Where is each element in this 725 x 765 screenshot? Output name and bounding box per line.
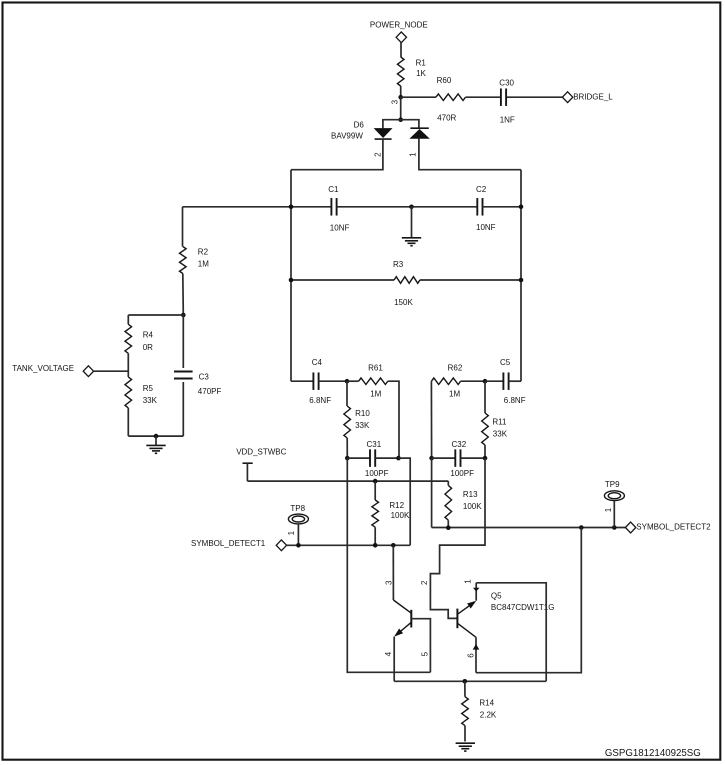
resistor R2 xyxy=(180,247,210,274)
svg-text:6.8NF: 6.8NF xyxy=(504,396,526,405)
label D6 BAV99W xyxy=(331,120,364,140)
svg-text:R4: R4 xyxy=(143,331,154,340)
wire C1 to ground node xyxy=(337,206,412,208)
node right rail / C2 row xyxy=(519,205,524,210)
svg-text:6: 6 xyxy=(466,653,475,658)
wire C31 row corner down xyxy=(399,458,411,545)
wire ground stem left xyxy=(155,436,157,445)
capacitor C1 xyxy=(328,185,349,233)
svg-text:10NF: 10NF xyxy=(476,223,496,232)
capacitor C5 xyxy=(500,358,526,405)
resistor R61 xyxy=(359,364,388,399)
svg-text:BC847CDW1T1G: BC847CDW1T1G xyxy=(491,603,555,612)
wire node to D6 common xyxy=(400,97,402,120)
wire left rail corner to C4 xyxy=(291,380,313,382)
svg-text:3: 3 xyxy=(385,580,394,585)
svg-text:POWER_NODE: POWER_NODE xyxy=(370,20,428,29)
wire left rail to R3 xyxy=(291,279,394,281)
wire POWER_NODE to R1 xyxy=(400,43,402,57)
wire D6 pin1 to bus xyxy=(408,138,521,169)
wire C32 to node xyxy=(461,457,486,459)
svg-text:1M: 1M xyxy=(198,260,209,269)
node right rail / R3 row xyxy=(519,278,524,283)
svg-text:R10: R10 xyxy=(355,409,370,418)
svg-text:1M: 1M xyxy=(449,390,460,399)
wire left rail xyxy=(290,170,292,382)
svg-text:TP9: TP9 xyxy=(605,480,620,489)
svg-text:D6: D6 xyxy=(354,120,365,129)
svg-text:VDD_STWBC: VDD_STWBC xyxy=(236,448,286,457)
ground under R5/C3 xyxy=(146,445,165,453)
diode D6b (cathode up) xyxy=(410,128,428,138)
wire node to R61 xyxy=(347,380,359,382)
wire ground stem xyxy=(411,207,413,238)
svg-text:470R: 470R xyxy=(437,113,456,122)
wire Q5a base rail to C31 left xyxy=(347,458,430,672)
resistor R4 xyxy=(125,324,153,353)
svg-text:2: 2 xyxy=(420,580,429,585)
svg-text:100PF: 100PF xyxy=(365,469,389,478)
wire C1 row to R2 xyxy=(182,207,184,247)
svg-text:1: 1 xyxy=(464,579,473,584)
node Q5a collector junction xyxy=(391,543,396,548)
test point TP9 xyxy=(604,480,624,528)
wire node to C5 xyxy=(485,380,503,382)
svg-text:R14: R14 xyxy=(479,698,494,707)
svg-text:SYMBOL_DETECT1: SYMBOL_DETECT1 xyxy=(191,539,266,548)
wire VDD rail xyxy=(247,480,448,482)
wire R3 to right rail xyxy=(420,279,521,281)
wire TANK_VOLTAGE to divider xyxy=(94,370,129,372)
svg-text:3: 3 xyxy=(390,99,399,104)
wire R4 lead xyxy=(127,315,129,324)
svg-text:R5: R5 xyxy=(143,384,154,393)
node C31 left junction xyxy=(345,456,350,461)
resistor R62 xyxy=(431,364,462,399)
svg-text:R1: R1 xyxy=(416,59,427,68)
svg-text:100K: 100K xyxy=(391,511,410,520)
svg-text:R12: R12 xyxy=(389,501,404,510)
svg-text:C1: C1 xyxy=(328,185,339,194)
node C1/C2 ground junction xyxy=(409,205,414,210)
wire divider bottom xyxy=(128,435,183,437)
capacitor C32 xyxy=(450,440,474,478)
svg-text:33K: 33K xyxy=(143,396,158,405)
wire C32 left down to SD2 xyxy=(431,458,433,527)
svg-text:C32: C32 xyxy=(452,440,467,449)
capacitor C3 xyxy=(174,315,221,436)
node R13 bottom junction xyxy=(446,525,451,530)
svg-text:1K: 1K xyxy=(416,69,426,78)
svg-text:C31: C31 xyxy=(367,440,382,449)
capacitor C30 xyxy=(499,78,515,124)
wire Q5a emitter pin4 xyxy=(384,637,394,682)
wire C30 to BRIDGE_L xyxy=(507,96,563,98)
node divider ground junction xyxy=(154,434,159,439)
wire node to C32 xyxy=(432,457,456,459)
svg-text:BAV99W: BAV99W xyxy=(331,131,363,140)
svg-text:Q5: Q5 xyxy=(491,592,502,601)
wire Q5b collector pin6 xyxy=(466,637,479,672)
wire C31 to node xyxy=(375,457,398,459)
svg-text:C5: C5 xyxy=(500,358,511,367)
svg-text:TP8: TP8 xyxy=(290,504,305,513)
node C31 right junction xyxy=(396,456,401,461)
svg-text:BRIDGE_L: BRIDGE_L xyxy=(573,93,613,102)
capacitor C31 xyxy=(365,440,389,478)
wire R62 to node xyxy=(461,380,485,382)
ground under R14 xyxy=(456,743,475,751)
wire SYMBOL_DETECT1 rail xyxy=(287,544,411,546)
svg-text:R2: R2 xyxy=(198,248,209,257)
wire node to C31 xyxy=(347,457,370,459)
node C4/R61/R10 junction xyxy=(345,379,350,384)
svg-text:5: 5 xyxy=(421,651,430,656)
node R12 bottom junction xyxy=(373,543,378,548)
svg-text:R11: R11 xyxy=(492,418,507,427)
svg-text:C4: C4 xyxy=(312,358,323,367)
svg-text:470PF: 470PF xyxy=(198,387,222,396)
wire R2 to node xyxy=(182,274,185,316)
wire Q5b collector to SD2 xyxy=(476,528,581,673)
svg-text:1M: 1M xyxy=(370,390,381,399)
wire R62 corner down xyxy=(430,381,432,458)
wire Q5a collector xyxy=(385,545,394,600)
node Q5b collector net junction xyxy=(579,525,584,530)
svg-text:1: 1 xyxy=(408,152,417,157)
resistor R12 xyxy=(372,481,410,545)
resistor R5 xyxy=(125,377,158,408)
wire node to C2 xyxy=(412,206,478,208)
resistor R11 xyxy=(482,381,508,458)
node R14 junction xyxy=(463,679,468,684)
wire R2 corner to C1 xyxy=(183,206,332,208)
svg-text:2.2K: 2.2K xyxy=(480,710,497,719)
svg-text:10NF: 10NF xyxy=(330,224,350,233)
node left rail / C1 row xyxy=(289,205,294,210)
net label TANK_VOLTAGE xyxy=(12,364,93,376)
wire Q5b base path from C32 right xyxy=(420,458,485,618)
transistor Q5b (right NPN) xyxy=(457,601,476,638)
label Q5 BC847CDW1T1G xyxy=(491,592,555,612)
wire R5 to bottom xyxy=(127,408,129,436)
wire R1 to node xyxy=(400,86,402,97)
svg-text:R62: R62 xyxy=(448,364,463,373)
wire C4 to node xyxy=(319,380,347,382)
node R1/R60/D6 junction xyxy=(398,95,403,100)
svg-text:33K: 33K xyxy=(355,421,370,430)
wire right rail xyxy=(520,170,522,382)
svg-text:0R: 0R xyxy=(143,343,153,352)
svg-text:1NF: 1NF xyxy=(500,115,515,124)
svg-text:1: 1 xyxy=(604,507,613,512)
wire C2 to right rail xyxy=(483,206,522,208)
resistor R13 xyxy=(445,481,482,528)
wire node to R4 top xyxy=(128,314,183,316)
svg-text:SYMBOL_DETECT2: SYMBOL_DETECT2 xyxy=(636,523,711,532)
wire SYMBOL_DETECT2 rail xyxy=(432,527,626,529)
node D6 pin3 junction xyxy=(390,99,403,122)
svg-text:GSPG1812140925SG: GSPG1812140925SG xyxy=(605,748,701,759)
diode D6a (anode up) xyxy=(375,129,392,140)
node VDD / R12 top xyxy=(373,479,378,484)
net label POWER_NODE xyxy=(370,20,428,42)
svg-text:R3: R3 xyxy=(393,260,404,269)
svg-text:33K: 33K xyxy=(493,430,508,439)
net label SYMBOL_DETECT1 xyxy=(191,539,287,551)
wire R4 to tap xyxy=(127,353,129,377)
node left rail / R3 row xyxy=(289,278,294,283)
node TP9 junction xyxy=(612,525,617,530)
svg-text:150K: 150K xyxy=(394,298,413,307)
node C5/R62/R11 junction xyxy=(483,379,488,384)
wire emitter rail xyxy=(394,680,546,682)
node C32 left junction xyxy=(429,456,434,461)
wire D6 pin2 to bus xyxy=(291,139,383,170)
net label SYMBOL_DETECT2 xyxy=(625,522,711,533)
svg-text:100PF: 100PF xyxy=(450,469,474,478)
node TP8 junction xyxy=(296,543,301,548)
resistor R10 xyxy=(344,381,370,458)
net label VDD_STWBC xyxy=(236,448,286,482)
wire D6 common to left diode xyxy=(383,120,401,129)
wire D6 common to right diode xyxy=(401,120,419,129)
svg-text:C30: C30 xyxy=(499,78,514,87)
svg-text:R13: R13 xyxy=(463,490,478,499)
wire C5 to right rail corner xyxy=(509,380,521,382)
net label BRIDGE_L xyxy=(562,92,613,103)
resistor R1 xyxy=(397,57,426,86)
wire R61 to corner down xyxy=(388,381,399,458)
wire R60 to C30 xyxy=(466,96,501,98)
wire node to R60 xyxy=(401,96,436,98)
svg-text:4: 4 xyxy=(384,651,393,656)
resistor R14 xyxy=(462,681,497,741)
svg-text:C3: C3 xyxy=(199,373,210,382)
svg-text:R61: R61 xyxy=(368,364,383,373)
test point TP8 xyxy=(287,504,308,545)
wire Q5b emitter top rail xyxy=(476,583,546,682)
svg-text:1: 1 xyxy=(287,530,296,535)
capacitor C4 xyxy=(309,358,331,405)
node R2/C3/R4 junction xyxy=(181,313,186,318)
ground under C1/C2 xyxy=(402,238,421,246)
capacitor C2 xyxy=(476,185,496,232)
label GSPG1812140925SG xyxy=(605,748,701,759)
wire Q5b emitter pin1 xyxy=(464,579,480,601)
resistor R3 xyxy=(393,260,420,307)
resistor R60 xyxy=(436,76,466,123)
wire Q5a base xyxy=(411,619,430,673)
svg-text:R60: R60 xyxy=(437,76,452,85)
node C32 right junction xyxy=(483,456,488,461)
svg-text:C2: C2 xyxy=(476,185,487,194)
svg-text:6.8NF: 6.8NF xyxy=(309,396,331,405)
transistor Q5a (left NPN) xyxy=(393,600,411,637)
svg-text:100K: 100K xyxy=(463,502,482,511)
svg-text:TANK_VOLTAGE: TANK_VOLTAGE xyxy=(12,364,74,373)
svg-text:2: 2 xyxy=(373,152,382,157)
